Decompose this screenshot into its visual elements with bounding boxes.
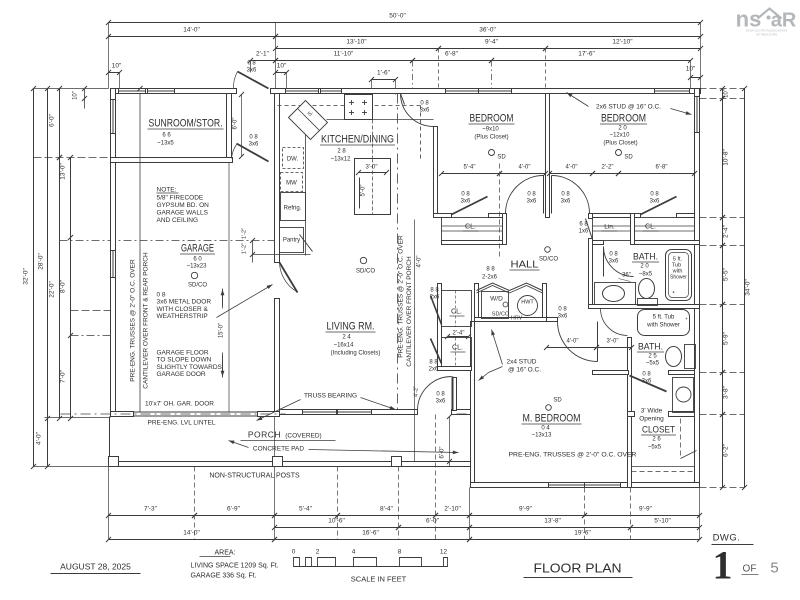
svg-text:10": 10" <box>277 63 287 70</box>
svg-text:BATH.: BATH. <box>638 342 663 353</box>
svg-text:4'-0": 4'-0" <box>36 431 43 445</box>
svg-text:17'-6": 17'-6" <box>578 51 595 58</box>
svg-text:~13x13: ~13x13 <box>532 433 553 439</box>
svg-text:6'-8": 6'-8" <box>445 51 459 58</box>
svg-text:GARAGE FLOOR: GARAGE FLOOR <box>157 350 209 357</box>
svg-text:2-2x6: 2-2x6 <box>482 275 498 281</box>
svg-text:PRE-ENG. TRUSSES @ 2'-0" O.C.: PRE-ENG. TRUSSES @ 2'-0" O.C. OVER <box>130 259 137 382</box>
svg-text:~13x12: ~13x12 <box>331 157 352 163</box>
svg-text:HRV: HRV <box>511 316 523 322</box>
svg-text:2'-10": 2'-10" <box>444 506 461 513</box>
svg-text:22'-0": 22'-0" <box>49 281 56 298</box>
svg-text:34'-0": 34'-0" <box>745 279 752 296</box>
svg-text:0 8: 0 8 <box>247 61 256 67</box>
svg-text:Shower: Shower <box>670 275 687 281</box>
svg-text:3x6: 3x6 <box>558 314 568 320</box>
svg-text:7'-3": 7'-3" <box>144 506 158 513</box>
svg-text:with Shower: with Shower <box>646 323 680 329</box>
svg-text:SD: SD <box>497 155 506 161</box>
svg-text:6'-0": 6'-0" <box>426 518 440 525</box>
svg-text:TO SLOPE DOWN: TO SLOPE DOWN <box>157 357 212 364</box>
svg-text:SCALE IN FEET: SCALE IN FEET <box>351 575 407 584</box>
svg-text:AND CEILING: AND CEILING <box>157 217 199 224</box>
svg-text:6'-8": 6'-8" <box>656 165 668 171</box>
svg-text:7'-0": 7'-0" <box>60 369 67 383</box>
svg-text:8 8: 8 8 <box>429 360 438 366</box>
svg-text:1x6: 1x6 <box>579 229 589 235</box>
svg-text:CANTILEVER OVER FRONT & REAR P: CANTILEVER OVER FRONT & REAR PORCH <box>143 252 150 389</box>
svg-text:NON-STRUCTURAL POSTS: NON-STRUCTURAL POSTS <box>209 473 300 480</box>
svg-text:0 8: 0 8 <box>420 101 429 107</box>
svg-text:*: * <box>686 318 688 324</box>
svg-text:(COVERED): (COVERED) <box>285 433 321 440</box>
svg-text:1'-2": 1'-2" <box>242 228 248 239</box>
svg-text:OF REALTORS: OF REALTORS <box>756 33 777 37</box>
svg-text:GARAGE WALLS: GARAGE WALLS <box>157 210 209 217</box>
svg-text:5'-10": 5'-10" <box>654 518 671 525</box>
svg-text:BEDROOM: BEDROOM <box>470 113 514 125</box>
svg-text:50'-0": 50'-0" <box>389 13 406 20</box>
svg-text:2: 2 <box>316 549 320 556</box>
svg-text:5'-4": 5'-4" <box>464 165 476 171</box>
svg-text:3x6: 3x6 <box>436 399 446 405</box>
svg-text:5'-5": 5'-5" <box>723 267 730 281</box>
svg-text:PRE-ENG. TRUSSES @ 2'-0" O.: PRE-ENG. TRUSSES @ 2'-0" O.C. OVER <box>509 452 637 459</box>
svg-text:(Plus Closet): (Plus Closet) <box>474 135 508 141</box>
svg-text:3'-8": 3'-8" <box>723 385 730 399</box>
svg-text:5'-0": 5'-0" <box>361 185 367 197</box>
svg-text:13'-8": 13'-8" <box>544 518 561 525</box>
svg-text:6'-2": 6'-2" <box>723 443 730 457</box>
svg-text:~5x5: ~5x5 <box>646 361 660 367</box>
svg-text:SD/CO: SD/CO <box>188 283 207 289</box>
svg-text:SD: SD <box>624 155 633 161</box>
svg-text:4'-0": 4'-0" <box>417 256 423 268</box>
svg-text:~5x5: ~5x5 <box>648 445 662 451</box>
svg-text:2 4: 2 4 <box>342 335 351 341</box>
svg-text:14'-0": 14'-0" <box>183 27 200 34</box>
svg-text:AUGUST 28, 2025: AUGUST 28, 2025 <box>60 562 131 572</box>
svg-text:~8x5: ~8x5 <box>639 272 653 278</box>
svg-text:LIVING RM.: LIVING RM. <box>327 321 375 333</box>
svg-text:3x6: 3x6 <box>420 108 430 114</box>
svg-text:16'-6": 16'-6" <box>362 530 379 537</box>
svg-text:32'-0": 32'-0" <box>23 268 30 285</box>
svg-text:CANTILEVER OVER FRONT PORCH: CANTILEVER OVER FRONT PORCH <box>406 256 413 367</box>
svg-text:1'-2": 1'-2" <box>242 243 248 254</box>
svg-text:3x6: 3x6 <box>249 142 259 148</box>
svg-text:BEDROOM: BEDROOM <box>601 113 646 125</box>
svg-text:PORCH: PORCH <box>248 430 281 440</box>
svg-text:~12x10: ~12x10 <box>610 133 631 139</box>
svg-text:2x6: 2x6 <box>430 295 440 301</box>
svg-text:0 8: 0 8 <box>436 392 445 398</box>
svg-text:~16x14: ~16x14 <box>334 343 355 349</box>
svg-text:3' Wide: 3' Wide <box>641 408 663 415</box>
svg-text:10'-6": 10'-6" <box>328 518 345 525</box>
svg-text:CL.: CL. <box>645 224 656 231</box>
svg-text:3x6: 3x6 <box>650 199 660 205</box>
svg-text:15'-0": 15'-0" <box>219 323 225 338</box>
svg-text:NOTE:: NOTE: <box>157 187 177 194</box>
svg-text:5/8" FIRECODE: 5/8" FIRECODE <box>157 195 204 202</box>
svg-text:6 8: 6 8 <box>579 222 588 228</box>
svg-text:0 8: 0 8 <box>249 135 258 141</box>
svg-text:8 8: 8 8 <box>430 288 439 294</box>
svg-text:36": 36" <box>622 273 631 279</box>
svg-text:CL.: CL. <box>465 224 476 231</box>
svg-text:W/D: W/D <box>490 296 503 303</box>
svg-text:WITH CLOSER &: WITH CLOSER & <box>157 306 209 313</box>
svg-text:10": 10" <box>73 91 79 100</box>
svg-text:8'-0": 8'-0" <box>60 279 67 293</box>
svg-text:GARAGE 336 Sq. Ft.: GARAGE 336 Sq. Ft. <box>191 573 257 580</box>
svg-text:GARAGE: GARAGE <box>181 243 214 255</box>
svg-text:SD: SD <box>553 398 562 404</box>
svg-text:FLOOR PLAN: FLOOR PLAN <box>534 561 622 576</box>
svg-text:0 8: 0 8 <box>558 307 567 313</box>
svg-text:~13x23: ~13x23 <box>187 264 208 270</box>
svg-text:4'-0": 4'-0" <box>519 165 531 171</box>
svg-text:4'-0": 4'-0" <box>567 339 579 345</box>
svg-text:2 5: 2 5 <box>648 354 657 360</box>
svg-text:3x6: 3x6 <box>527 199 537 205</box>
svg-text:~13x5: ~13x5 <box>157 141 174 147</box>
svg-text:9'-9": 9'-9" <box>519 506 533 513</box>
svg-text:0 4: 0 4 <box>541 426 550 432</box>
svg-text:Refrig.: Refrig. <box>284 206 302 212</box>
svg-text:2 0: 2 0 <box>640 264 649 270</box>
svg-text:13'-0": 13'-0" <box>60 163 67 180</box>
svg-text:3x6 METAL DOOR: 3x6 METAL DOOR <box>157 299 212 306</box>
svg-text:2'-4": 2'-4" <box>723 224 730 238</box>
svg-text:5'-4": 5'-4" <box>299 506 313 513</box>
svg-text:5'-9": 5'-9" <box>723 331 730 345</box>
svg-text:3'-0": 3'-0" <box>366 165 378 171</box>
svg-text:Lin.: Lin. <box>604 224 615 231</box>
svg-text:PRE-ENG. LVL LINTEL: PRE-ENG. LVL LINTEL <box>148 420 216 427</box>
svg-text:SUNROOM/STOR.: SUNROOM/STOR. <box>149 118 223 130</box>
svg-text:2'-4": 2'-4" <box>453 331 465 337</box>
svg-text:6'-0": 6'-0" <box>233 118 239 130</box>
svg-text:2'-1": 2'-1" <box>256 51 270 58</box>
svg-text:6'-9": 6'-9" <box>227 506 241 513</box>
svg-text:8: 8 <box>398 549 402 556</box>
svg-text:3'-0": 3'-0" <box>607 339 619 345</box>
svg-text:2 8: 2 8 <box>337 149 346 155</box>
svg-text:PRE-ENG. TRUSSES @ 2'-0" O.C.: PRE-ENG. TRUSSES @ 2'-0" O.C. OVER <box>398 235 405 358</box>
svg-text:GARAGE DOOR: GARAGE DOOR <box>157 371 206 378</box>
svg-text:SLIGHTLY TOWARDS: SLIGHTLY TOWARDS <box>157 364 223 371</box>
svg-text:LIVING SPACE 1209 Sq. Ft.: LIVING SPACE 1209 Sq. Ft. <box>191 563 279 570</box>
svg-text:6'-0": 6'-0" <box>49 113 56 127</box>
svg-text:CL.: CL. <box>452 345 463 352</box>
svg-text:10": 10" <box>112 63 122 70</box>
svg-text:0 8: 0 8 <box>561 192 570 198</box>
svg-text:10'-8": 10'-8" <box>723 149 730 166</box>
svg-text:Pantry: Pantry <box>283 238 300 244</box>
svg-text:CLOSET: CLOSET <box>642 425 675 436</box>
svg-text:2x6: 2x6 <box>429 367 439 373</box>
svg-text:KITCHEN/DINING: KITCHEN/DINING <box>321 134 394 146</box>
svg-text:5: 5 <box>770 560 778 577</box>
svg-text:6 6: 6 6 <box>162 133 171 139</box>
svg-text:~9x10: ~9x10 <box>482 127 499 133</box>
svg-text:SD/CO: SD/CO <box>492 312 510 318</box>
svg-text:6'-0": 6'-0" <box>440 447 446 459</box>
svg-text:3x6: 3x6 <box>247 68 257 74</box>
svg-text:2x4 STUD: 2x4 STUD <box>507 359 537 366</box>
svg-text:14'-0": 14'-0" <box>183 530 200 537</box>
svg-text:11'-10": 11'-10" <box>334 51 354 58</box>
svg-text:0 8: 0 8 <box>609 252 618 258</box>
svg-text:HWT: HWT <box>521 300 534 306</box>
svg-text:0 8: 0 8 <box>650 192 659 198</box>
svg-text:6 0: 6 0 <box>193 257 202 263</box>
svg-text:CONCRETE PAD: CONCRETE PAD <box>253 446 304 453</box>
svg-text:HALL: HALL <box>511 260 539 271</box>
svg-text:0 8: 0 8 <box>157 292 166 299</box>
svg-text:SD/CO: SD/CO <box>356 269 375 275</box>
svg-text:M. BEDROOM: M. BEDROOM <box>523 413 581 425</box>
svg-text:10'x7' OH. GAR. DOOR: 10'x7' OH. GAR. DOOR <box>145 401 214 408</box>
svg-text:36'-0": 36'-0" <box>479 27 496 34</box>
svg-text:2 0: 2 0 <box>618 126 627 132</box>
svg-text:(Plus Closet): (Plus Closet) <box>603 141 637 147</box>
svg-text:3x6: 3x6 <box>561 199 571 205</box>
svg-text:2x6 STUD @ 16" O.C.: 2x6 STUD @ 16" O.C. <box>596 104 661 111</box>
svg-text:3x6: 3x6 <box>461 199 471 205</box>
svg-text:OF: OF <box>743 564 757 575</box>
svg-text:3x6: 3x6 <box>609 259 619 265</box>
svg-text:GYPSUM BD. ON: GYPSUM BD. ON <box>157 202 210 209</box>
svg-text:3x6: 3x6 <box>642 379 652 385</box>
svg-text:8 8: 8 8 <box>486 267 495 273</box>
svg-text:12'-10": 12'-10" <box>612 39 633 46</box>
svg-text:MW: MW <box>286 181 297 187</box>
svg-text:9'-4": 9'-4" <box>485 39 499 46</box>
svg-text:@ 16" O.C.: @ 16" O.C. <box>508 367 541 374</box>
svg-text:0: 0 <box>292 549 296 556</box>
svg-text:13'-10": 13'-10" <box>346 39 367 46</box>
svg-text:0 8: 0 8 <box>642 372 651 378</box>
svg-text:0 8: 0 8 <box>461 192 470 198</box>
svg-text:Opening: Opening <box>639 416 664 423</box>
svg-text:2 6: 2 6 <box>652 437 661 443</box>
svg-text:28'-0": 28'-0" <box>38 253 45 270</box>
svg-text:8'-4": 8'-4" <box>380 506 394 513</box>
svg-text:5 ft. Tub: 5 ft. Tub <box>653 315 675 321</box>
svg-text:2'-2": 2'-2" <box>602 165 614 171</box>
svg-text:4'-0": 4'-0" <box>566 165 578 171</box>
svg-text:9'-9": 9'-9" <box>639 506 653 513</box>
svg-text:4: 4 <box>352 549 356 556</box>
svg-text:BATH.: BATH. <box>633 252 658 263</box>
svg-text:CL.: CL. <box>451 309 462 316</box>
svg-text:0 8: 0 8 <box>527 192 536 198</box>
svg-text:12: 12 <box>440 549 448 556</box>
svg-text:SD/CO: SD/CO <box>539 257 558 263</box>
svg-text:WEATHERSTRIP: WEATHERSTRIP <box>157 313 208 320</box>
svg-text:19'-6": 19'-6" <box>574 530 591 537</box>
svg-text:AREA:: AREA: <box>215 550 236 557</box>
svg-text:1: 1 <box>713 543 733 588</box>
svg-text:(Including Closets): (Including Closets) <box>331 351 381 357</box>
svg-text:TRUSS BEARING: TRUSS BEARING <box>304 393 357 400</box>
svg-text:DW.: DW. <box>287 157 299 163</box>
svg-text:1'-6": 1'-6" <box>377 70 391 77</box>
